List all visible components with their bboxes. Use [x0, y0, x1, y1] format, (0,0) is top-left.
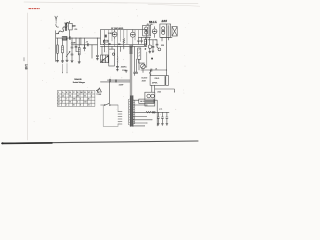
main grid bus: [56, 37, 101, 39]
resistor R6: [144, 37, 146, 46]
primary leads: [103, 105, 118, 126]
resistor R3 tail: [78, 55, 80, 63]
primary winding ticks: [118, 112, 122, 125]
audio coupling line: [107, 79, 130, 81]
rectifier vertical link: [154, 100, 157, 126]
oscillator-modulator shield box: [100, 30, 146, 45]
field coil bumps: [152, 82, 157, 85]
svg-text:.01: .01: [155, 68, 157, 70]
filter choke circles: [152, 112, 154, 114]
IF core hatch: [130, 46, 133, 54]
wire drops: [120, 45, 123, 52]
tone control triangle: [97, 88, 101, 92]
volume pot wiper: [66, 38, 70, 57]
wire left column: [56, 31, 59, 62]
coupling condenser blob: [105, 35, 107, 38]
capacitor C6 with ground: [96, 38, 98, 60]
secondary lead 3 (filter bus): [133, 111, 144, 113]
speaker magnet bar: [165, 76, 167, 85]
svg-text:320: 320: [84, 102, 87, 104]
svg-text:250M: 250M: [142, 81, 147, 83]
audio line: [141, 69, 167, 71]
svg-text:95: 95: [69, 96, 71, 98]
power transformer core: [130, 96, 133, 127]
svg-text:146: 146: [24, 64, 28, 70]
secondary lead 5: [133, 119, 152, 121]
gang tuning capacitor: [101, 55, 109, 63]
capacitor C19: [156, 40, 158, 47]
output coupling block: [172, 27, 177, 36]
page left fold line: [27, 13, 29, 140]
page number 146 rotated: [23, 58, 25, 61]
secondary lead 1: [133, 99, 139, 101]
svg-text:58-I.F.: 58-I.F.: [149, 20, 157, 24]
capacitor C14: [115, 80, 118, 83]
header note row: [58, 91, 94, 94]
svg-text:455KC: 455KC: [121, 66, 128, 69]
secondary lead 7: [133, 125, 145, 127]
junction blob: [145, 48, 147, 50]
svg-text:2A5: 2A5: [161, 19, 168, 23]
margin note arrow: [96, 89, 99, 91]
secondary lead 4: [133, 116, 146, 118]
resistor R3: [76, 38, 79, 55]
tube V1: [112, 32, 117, 37]
svg-text:180: 180: [73, 99, 76, 101]
oscillator coil can: [109, 49, 115, 66]
tube V3: [152, 29, 157, 34]
svg-text:1934-35: 1934-35: [74, 78, 82, 81]
antenna transformer T1 core: [65, 23, 67, 30]
AVC feed wire: [145, 52, 147, 67]
tube V2: [130, 32, 135, 37]
trimmer capacitor C1: [73, 25, 76, 26]
small padder cap: [125, 70, 127, 72]
junction dots: [68, 37, 71, 40]
power switch S1: [101, 103, 118, 105]
detector coil: [138, 48, 141, 59]
ground R2: [61, 53, 63, 62]
wire tone to switch: [109, 82, 111, 103]
ballast block: [139, 99, 154, 103]
svg-text:90: 90: [84, 96, 86, 98]
capacitor C4: [75, 38, 77, 51]
secondary lead 6: [133, 122, 147, 124]
wire can2 to block: [161, 36, 173, 38]
svg-text:51: 51: [58, 105, 60, 107]
capacitor C7b: [138, 38, 140, 45]
antenna junction dot: [55, 18, 58, 21]
svg-text:1 MEG: 1 MEG: [108, 33, 114, 35]
svg-text:.05MF: .05MF: [118, 84, 124, 86]
voltage table grid: [57, 91, 95, 107]
filter resistor R8: [146, 112, 151, 113]
svg-text:2146: 2146: [157, 91, 161, 94]
IF transformer can 2: [160, 24, 171, 37]
capacitor C5: [86, 43, 89, 46]
B+ vertical line: [166, 37, 168, 75]
T1 top bracket: [64, 22, 68, 24]
capacitor C13: [108, 79, 111, 82]
ground AVC: [149, 48, 151, 53]
volume pot circle: [141, 64, 146, 69]
svg-text:Socket Voltages: Socket Voltages: [73, 81, 85, 84]
table data: [58, 95, 92, 107]
tone line: [100, 81, 130, 83]
capacitor C8: [118, 43, 120, 46]
capacitor C12: [151, 69, 152, 71]
primary winding bumps: [128, 99, 129, 125]
IF transformer can 1: [143, 25, 151, 36]
svg-text:15: 15: [88, 105, 90, 107]
resistor R4b horizontal: [103, 40, 108, 42]
antenna: [55, 16, 59, 27]
electrolytic C17: [166, 112, 168, 125]
capacitor C4b: [83, 38, 85, 51]
svg-text:250: 250: [77, 96, 80, 98]
output transformer: [145, 92, 155, 106]
resistor R5: [123, 38, 124, 44]
electrolytic C15: [157, 112, 159, 125]
wire drop: [91, 45, 93, 58]
resistor R4: [104, 40, 105, 47]
wire T1 to bus: [69, 30, 71, 38]
trimmer inside: [112, 53, 114, 55]
svg-text:50,000: 50,000: [141, 77, 148, 79]
svg-text:250: 250: [74, 29, 77, 31]
capacitor C10: [136, 72, 138, 73]
page top edge: [24, 2, 198, 4]
secondary winding bumps: [134, 100, 135, 124]
antenna coil L1: [59, 21, 70, 33]
resistor R1: [57, 38, 59, 54]
wires to output transformer: [152, 85, 155, 92]
detector wiring: [139, 36, 151, 38]
second bus line: [71, 38, 97, 48]
svg-text:2.5: 2.5: [62, 96, 64, 98]
filter bus: [144, 111, 169, 113]
AVC divider network: [148, 39, 157, 41]
capacitor C11: [141, 37, 143, 43]
faint scan diagonal: [148, 4, 200, 6]
AVC diode circle: [158, 48, 161, 51]
electrolytic C16: [161, 112, 163, 125]
capacitor C3: [71, 38, 73, 62]
resistor R2: [62, 38, 64, 53]
svg-text:57 OSC-MOD: 57 OSC-MOD: [111, 28, 124, 30]
wire drops right of IF: [135, 46, 139, 72]
svg-text:.05: .05: [86, 42, 88, 44]
red stamp text top-left: [29, 8, 40, 9]
ground R1: [56, 54, 58, 62]
lead terminal dots: [144, 105, 152, 127]
svg-text:TONE: TONE: [96, 94, 102, 96]
wire box to gang: [102, 46, 105, 55]
T1 secondary winding box: [69, 23, 73, 30]
speaker box: [150, 76, 168, 86]
coil L2: [116, 46, 118, 71]
wave trap box: [62, 37, 67, 41]
secondary lead 2: [133, 104, 147, 106]
capacitor C7: [108, 43, 110, 46]
resistor R7: [150, 70, 151, 76]
scan grain speckles: [34, 8, 189, 132]
lower comb extensions: [63, 64, 68, 73]
svg-text:65: 65: [73, 105, 75, 107]
terminal blob: [151, 58, 153, 60]
capacitor C18: [152, 40, 154, 53]
series capacitor C2 on bus: [68, 37, 71, 40]
small tube socket circle: [148, 45, 151, 48]
capacitor C9: [134, 72, 136, 75]
IF transformer feed lines: [130, 46, 132, 95]
box interior wires: [105, 30, 139, 47]
page bottom edge shadow: [2, 141, 198, 143]
voice coil lead: [155, 89, 174, 92]
svg-text:90: 90: [69, 102, 71, 104]
